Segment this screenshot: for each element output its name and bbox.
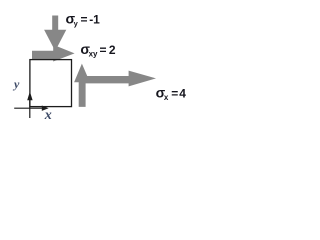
- svg-text:y: y: [12, 77, 20, 91]
- svg-text:4: 4: [179, 86, 186, 100]
- y axis arrowhead: [27, 92, 32, 101]
- svg-text:=: =: [81, 13, 88, 27]
- shear arrow (upward, right face): [74, 64, 90, 107]
- sigma_y arrow (downward, top face): [44, 16, 66, 52]
- svg-text:=: =: [171, 86, 178, 100]
- svg-text:xy: xy: [89, 50, 98, 59]
- sigma_xy arrow (rightward, top face): [32, 45, 75, 62]
- y axis line: [29, 100, 31, 119]
- stress element box: [30, 60, 72, 107]
- sigma_x arrow (rightward, right face): [79, 71, 156, 87]
- x axis line: [14, 107, 43, 109]
- x axis arrowhead: [42, 106, 49, 111]
- svg-text:x: x: [44, 108, 52, 123]
- svg-text:-1: -1: [89, 13, 100, 27]
- svg-text:2: 2: [109, 43, 116, 57]
- svg-text:=: =: [100, 43, 107, 57]
- svg-text:x: x: [164, 93, 169, 102]
- svg-text:y: y: [74, 19, 79, 28]
